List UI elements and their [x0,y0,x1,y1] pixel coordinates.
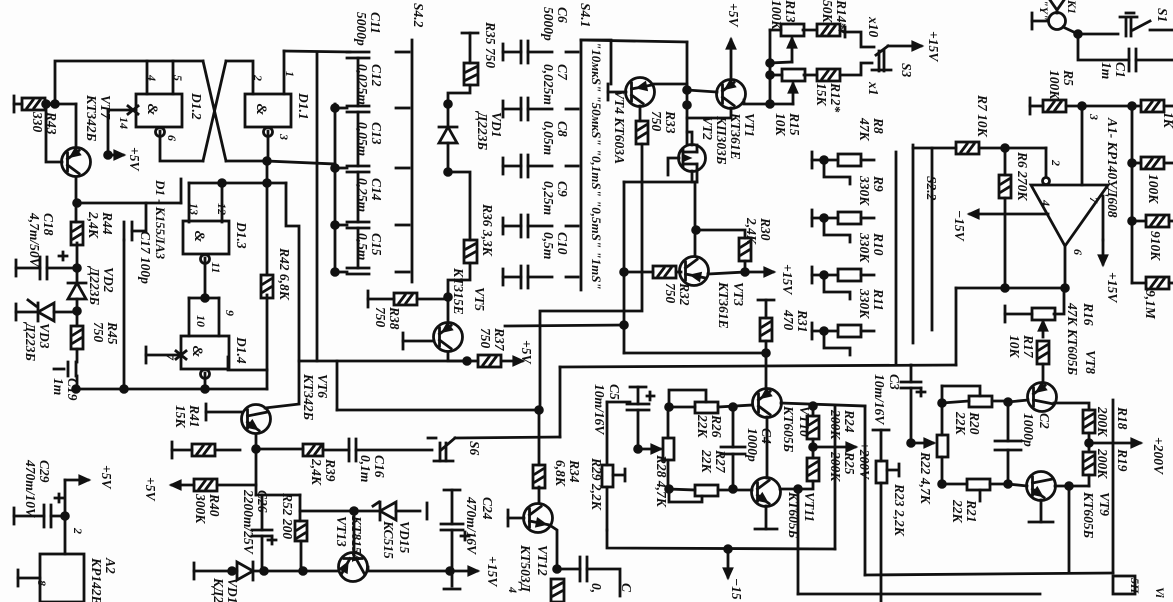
wire [812,439,815,458]
wire [261,495,264,530]
label VT1 KT361E [728,112,757,160]
capacitor C24 [441,524,463,530]
svg-text:C3: C3 [887,374,902,390]
svg-text:R41: R41 [187,404,202,428]
svg-text:11: 11 [209,262,223,273]
label C10 0,5m [541,232,570,259]
svg-text:+5V: +5V [127,147,142,171]
label R33 750 [649,110,678,134]
wire D1.4 side [228,357,267,370]
wire latch top rail [55,61,203,104]
label VD15 KS515 [381,520,412,559]
wire VT6 emitter [255,434,258,449]
logic gate D1.3 [183,221,229,264]
node pin11 [202,295,209,302]
svg-text:C9: C9 [555,181,570,197]
wire stub [607,401,630,404]
resistor R31 [760,318,772,341]
capacitor C8 [521,155,528,177]
wire VT8 base [1008,400,1028,402]
capacitor C6 [521,41,528,63]
transistor VT6 [242,405,271,434]
wire R36 to VT5 [448,263,470,323]
svg-text:C6: C6 [555,7,570,23]
terminal K1 [1031,13,1034,29]
wire pin 6 out [160,131,203,161]
wire [812,406,815,416]
wire to C1 [1078,34,1129,60]
resistor R14 [817,24,840,36]
label R16 47K [1065,302,1096,376]
label R43 330 [30,111,59,135]
wire [942,401,969,403]
node [666,486,673,493]
wire [812,274,838,277]
resistor R32 [653,266,676,278]
svg-text:КТ503Д: КТ503Д [518,544,533,593]
svg-text:C5: C5 [607,384,622,400]
label VT11 KT605B [786,491,817,539]
wire [76,268,79,283]
capacitor C14 [347,222,369,228]
plus mark [917,388,925,396]
svg-text:100К: 100К [769,0,784,30]
wire wiper [770,62,792,63]
label R27 22K [699,449,728,474]
wire [1088,475,1091,486]
label R5 100K [1047,69,1076,100]
svg-text:R24: R24 [842,409,857,433]
svg-text:&: & [144,104,160,116]
switch S1 [1120,13,1150,36]
wire [194,570,237,573]
svg-text:КТ342Б: КТ342Б [84,94,99,142]
svg-text:50K: 50K [820,0,835,24]
wire to pin 2 [226,61,253,94]
node [767,60,774,67]
transistor VT8 [1028,383,1057,412]
wire pin 6 [1064,246,1067,288]
junction [52,101,59,108]
wire [941,457,944,484]
node C18 [74,265,81,272]
svg-text:C10: C10 [555,232,570,255]
wire [172,449,192,452]
svg-text:R20: R20 [967,411,982,435]
resistor R35 [464,63,478,85]
terminal VD15 [426,503,429,519]
switch S4.1 contact C8 [566,165,578,168]
capacitor C15 [347,268,369,274]
svg-text:R31: R31 [795,309,810,333]
wire frame bottom [865,573,1113,575]
terminal R8 [811,152,814,168]
svg-text:200K: 200K [1095,448,1110,479]
wire VT12 emitter [551,526,557,569]
resistor R4 [1146,277,1169,289]
svg-text:S4.1: S4.1 [578,3,593,27]
svg-text:R40: R40 [207,493,222,517]
svg-text:R12*: R12* [828,82,843,113]
wire [16,311,36,314]
wire [357,228,360,268]
plus mark [268,536,276,544]
resistor R7 [956,142,979,154]
wire [624,181,697,184]
diode VD1 [439,127,457,143]
svg-text:S4.2: S4.2 [411,3,426,28]
label C6 5000p [541,7,570,41]
label VT6 KT342B [301,373,330,421]
switch S4.1 contact C7 [566,108,578,111]
terminal C8 [502,158,505,174]
wire -15 rail [607,530,835,549]
label R14* 50K [820,0,849,30]
diode VD15 [380,502,396,520]
node [693,227,700,234]
wire [353,511,356,558]
label C24 [464,496,495,555]
wire [1005,313,1032,316]
transistor VT10 [753,389,782,418]
wire [469,33,472,63]
resistor R13 [781,24,804,36]
label C12 [355,64,384,105]
resistor R16 [1032,308,1055,320]
box 5П [1113,576,1135,594]
wire R21 stub [979,490,982,501]
node [767,72,774,79]
wire VT1 collector [687,108,731,118]
wire [780,481,813,489]
wire [1007,450,1010,484]
svg-text:470: 470 [781,309,796,331]
node [332,105,339,112]
node [1005,399,1012,406]
wire [990,483,1008,486]
svg-text:+15V: +15V [485,556,500,587]
arrow -15V [970,210,1048,217]
svg-text:3: 3 [1087,113,1101,120]
capacitor C29 [44,505,51,527]
wire [217,484,256,487]
resistor R42 [261,275,273,298]
svg-text:D1.2: D1.2 [189,92,204,120]
wire VT10 collector [781,403,865,406]
svg-text:+5V: +5V [99,465,114,489]
wire VT9 emitter [1040,500,1043,522]
svg-text:0,: 0, [589,583,604,593]
label C 0, [589,583,634,593]
capacitor C9 [521,215,528,237]
wire [804,74,817,77]
node [1129,160,1136,167]
wire pin 9 [218,298,221,336]
pin14 cross mark [128,106,138,114]
switch S4.2 contact [396,107,409,110]
wire fb bus [956,287,1065,290]
label C8 0,05m [541,121,570,155]
svg-text:0,25m: 0,25m [355,178,370,212]
svg-text:2,4K: 2,4K [309,458,324,486]
svg-text:750: 750 [649,111,664,132]
wire ramp route [540,144,642,410]
svg-text:КТ361Е: КТ361Е [716,281,731,329]
svg-text:10m/16V: 10m/16V [872,374,887,425]
wire R26 loop [669,390,706,407]
resistor R2 [1141,157,1164,169]
node [300,568,307,575]
resistor R37 [478,355,501,367]
logic gate D1.2 [136,94,182,137]
svg-text:S2.2: S2.2 [924,176,939,201]
svg-text:15K: 15K [173,405,188,429]
wire [587,569,620,596]
node [730,486,737,493]
resistor R29 [602,465,613,487]
wire D1.3 input top [189,182,224,185]
wire pin 12 [221,183,224,222]
wire [54,311,77,314]
wire [669,489,695,490]
wire [1068,486,1071,573]
label R20 22K [953,411,982,436]
svg-text:R39: R39 [323,458,338,482]
logic gate D1.4 [181,336,229,379]
resistor R10 [838,269,861,281]
wire R42 bottom [266,295,269,370]
svg-text:1K: 1K [1161,112,1173,129]
node [1002,285,1009,292]
svg-text:VT2: VT2 [700,116,715,140]
terminal C10 [502,269,505,285]
svg-text:15K: 15K [814,83,829,107]
wire divider tap [824,218,850,242]
terminal VT5 base [402,333,405,349]
svg-text:R36 3,3K: R36 3,3K [480,203,495,257]
wire [941,386,944,435]
wire VT4 base [608,91,626,94]
svg-text:R29 2,2K: R29 2,2K [589,457,604,511]
wire [215,449,240,452]
svg-text:R23 2,2K: R23 2,2K [892,483,907,537]
svg-text:470m/16V: 470m/16V [464,496,479,555]
label R32 750 [663,282,692,306]
resistor R34 [533,465,545,488]
svg-text:VT11: VT11 [802,492,817,522]
svg-text:750: 750 [91,322,106,343]
wire VT2 source [696,171,699,182]
diode VD3 [38,303,54,321]
node VD3 [74,308,81,315]
svg-text:1m: 1m [51,378,66,395]
label R17 10K [1007,334,1036,359]
wire pin out [204,373,207,389]
svg-text:2,4К: 2,4К [86,211,101,239]
arrow R16 wiper [1039,322,1046,337]
label R44 2.4K [86,211,115,239]
svg-text:R6 270K: R6 270K [1015,151,1030,201]
label C2 1000p [1021,413,1052,447]
wire VT5 emitter [448,352,467,361]
wire [1169,220,1173,223]
svg-text:22K: 22K [695,414,710,439]
plus mark [461,532,469,540]
wire [528,276,552,279]
label C4 1000p [745,428,774,462]
wire fb riser [955,288,958,365]
label R12* 15K [814,82,843,113]
svg-text:VD15: VD15 [397,521,412,554]
svg-text:5000p: 5000p [354,12,369,46]
wire VT11 emitter [765,506,768,529]
wire to R36 [448,172,470,240]
node [810,403,817,410]
svg-text:Д223Б: Д223Б [87,265,102,305]
wire [528,108,552,111]
node [1129,103,1136,110]
wire [669,406,695,409]
svg-text:10K: 10K [773,113,788,137]
resistor R18 [1083,410,1095,433]
svg-text:КР142ЕН.: КР142ЕН. [89,557,104,602]
wire R31 to VT10 [765,341,768,388]
resistor R43 [22,98,45,110]
svg-text:2: 2 [251,74,265,81]
arrow +5V [727,40,734,79]
node [730,404,737,411]
arrow R22 wiper [911,439,933,446]
wire [1150,29,1173,32]
svg-text:R13: R13 [783,0,798,23]
wire VT13 emitter [368,567,450,571]
wire pin 8 [18,577,40,580]
svg-text:R7 10K: R7 10K [975,94,990,138]
wire [368,298,394,301]
node [1066,483,1073,490]
resistor R15 [782,69,805,81]
label C26 [241,489,270,555]
wire [676,271,681,274]
wire cross 2 [203,61,226,161]
svg-text:S6: S6 [467,441,482,456]
wire S2 bus b [912,145,915,343]
terminal VT6 base [205,404,208,420]
svg-text:10: 10 [194,315,208,327]
svg-text:&: & [189,346,205,358]
wire [337,409,539,412]
arrow R13 wiper [788,39,795,62]
svg-text:C15: C15 [369,233,384,256]
label C13 [355,122,384,156]
wire S4.1 bus [580,40,583,290]
wire [1164,162,1173,165]
wire [744,261,747,272]
svg-text:R30: R30 [758,217,773,241]
wire VT7 emitter [75,177,78,222]
diode VD3 mark [28,300,36,306]
svg-text:22K: 22K [699,449,714,474]
node [219,180,226,187]
svg-text:2: 2 [71,527,85,534]
wire C19 left stub [54,368,64,371]
svg-text:R45: R45 [105,321,120,345]
terminal VT4 base [607,84,610,100]
svg-text:47K КТ605Б: 47K КТ605Б [1065,302,1080,376]
wire pin 7 [146,354,181,357]
svg-text:КТ815А: КТ815А [349,515,364,563]
node [763,350,770,357]
label C15 [355,233,384,260]
wire [812,330,838,333]
svg-text:10m/16V: 10m/16V [592,384,607,435]
resistor R12 [817,69,840,81]
arrow +200V [813,443,855,450]
label R26 22K [695,414,724,439]
wire [357,112,360,166]
svg-text:1000p: 1000p [745,428,760,462]
node [795,486,802,493]
label A2 KR142EN [89,557,118,602]
transistor VT9 [1027,472,1056,501]
wire [64,480,67,554]
terminal pin 8 [17,570,20,586]
wire [1169,282,1173,285]
resistor R6 [999,175,1011,198]
wire to R42 [266,183,269,275]
transistor VT1 [717,80,746,109]
node [332,269,339,276]
wire [266,370,269,389]
wire VT3 emitter [708,272,745,274]
svg-text:+15V: +15V [1105,272,1120,303]
switch S6 [428,438,455,461]
resistor R26 [695,402,718,413]
wire tap C14 [335,224,347,227]
svg-text:КП303Б: КП303Б [714,115,729,165]
svg-text:C2: C2 [1037,413,1052,429]
logic gate D1.1 [245,94,291,137]
svg-text:D1.3: D1.3 [234,221,249,249]
junction [73,386,80,393]
svg-text:R44: R44 [100,211,115,235]
label R37 750 [478,327,507,352]
node [351,508,358,515]
node [1079,103,1086,110]
resistor R53 [551,579,564,602]
label R25 200K [828,451,857,482]
svg-text:КТ605Б: КТ605Б [1081,491,1096,539]
label R6 270K [1015,151,1030,201]
wire [255,449,258,495]
wire divider tap [824,331,850,355]
wire [1004,148,1007,175]
node [447,568,454,575]
svg-text:VT12: VT12 [535,545,550,576]
svg-text:13: 13 [187,203,201,215]
diode VD14 [237,562,253,580]
wire [1132,220,1146,223]
wire [942,483,967,486]
transistor VT12 [524,504,553,533]
switch S4.2 contact [396,167,409,170]
svg-text:R10: R10 [871,232,886,256]
wire [861,217,874,220]
label R45 750 [91,321,120,345]
resistor R17 [1037,341,1049,364]
wire [357,172,360,222]
svg-text:330K: 330K [857,288,872,319]
